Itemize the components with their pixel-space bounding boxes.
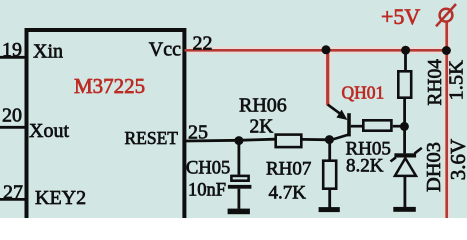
svg-text:M37225: M37225 (74, 74, 145, 98)
svg-text:10nF: 10nF (188, 181, 226, 201)
svg-text:CH05: CH05 (186, 159, 230, 179)
svg-text:DH03: DH03 (423, 142, 445, 192)
svg-text:+5V: +5V (381, 4, 420, 29)
svg-text:25: 25 (188, 122, 208, 144)
svg-text:RH04: RH04 (425, 59, 446, 106)
svg-text:Xin: Xin (33, 41, 63, 63)
svg-text:22: 22 (193, 33, 213, 55)
svg-text:RH07: RH07 (266, 159, 311, 180)
svg-text:Xout: Xout (29, 120, 69, 142)
svg-text:2K: 2K (250, 117, 274, 138)
svg-text:20: 20 (2, 105, 22, 127)
svg-text:3.6V: 3.6V (446, 139, 467, 180)
svg-text:QH01: QH01 (342, 83, 385, 103)
svg-text:Vcc: Vcc (149, 39, 181, 61)
svg-text:27: 27 (3, 182, 23, 204)
svg-text:8.2K: 8.2K (346, 156, 384, 177)
svg-text:4.7K: 4.7K (269, 183, 307, 204)
svg-text:19: 19 (2, 39, 22, 61)
svg-text:KEY2: KEY2 (35, 187, 86, 209)
svg-text:RH06: RH06 (239, 95, 287, 117)
svg-text:RESET: RESET (125, 128, 179, 148)
svg-text:1.5K: 1.5K (446, 60, 467, 101)
